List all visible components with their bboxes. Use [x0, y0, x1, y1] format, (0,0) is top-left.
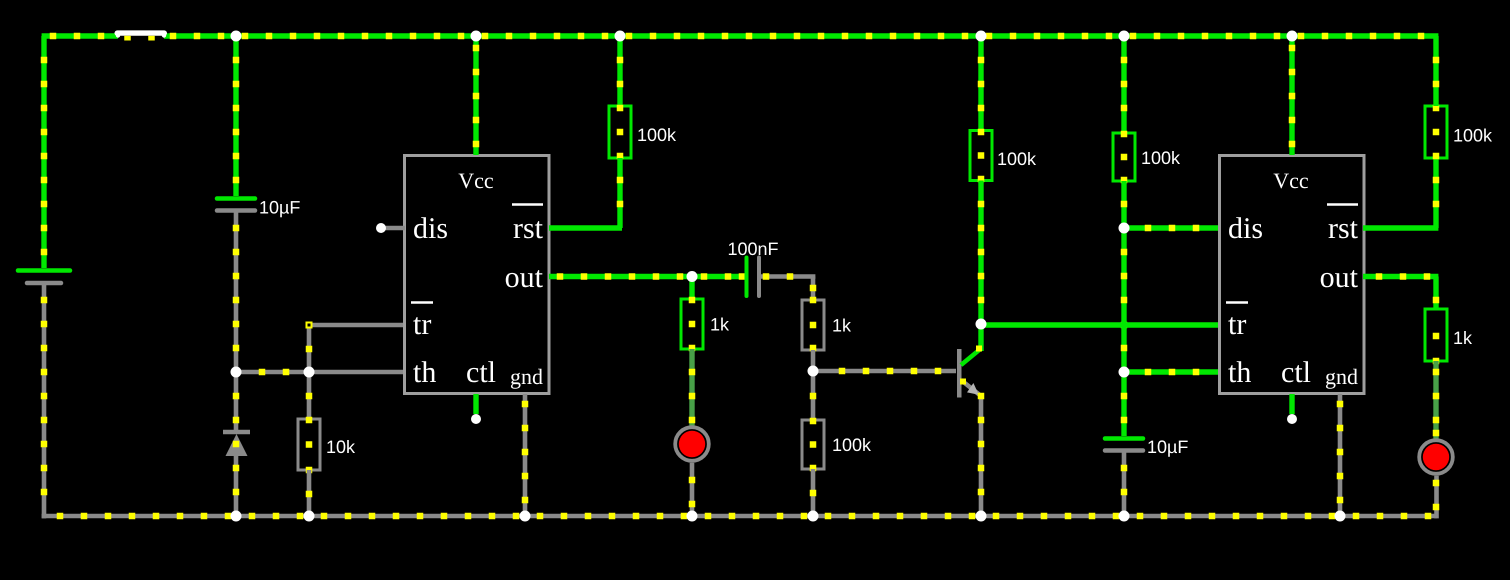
wire U2 gnd pin to ground rail [1337, 394, 1344, 516]
wire C1 bottom to th node [233, 212, 240, 372]
wire U2 ctl stub (unconnected) [1289, 394, 1294, 414]
svg-text:10µF: 10µF [259, 198, 300, 218]
resistor R2 10k [298, 417, 356, 474]
IC U2 555 timer body [1220, 156, 1365, 394]
node A (out / C2 / LED branch) [687, 271, 698, 282]
wire U1 Vcc pin [473, 36, 480, 155]
wire LED1 cathode to ground rail [689, 463, 696, 516]
svg-text:rst: rst [1328, 212, 1359, 245]
svg-text:1k: 1k [710, 315, 730, 335]
svg-text:100k: 100k [997, 149, 1037, 169]
svg-text:ctl: ctl [1281, 356, 1311, 389]
wire top power rail (+5V) [42, 33, 1439, 40]
wire battery positive lead [41, 36, 48, 268]
svg-text:rst: rst [513, 212, 544, 245]
svg-text:out: out [505, 261, 544, 294]
svg-text:100k: 100k [1453, 126, 1493, 146]
wire node B to transistor base [813, 368, 956, 375]
wire U2 rst to R8 [1363, 158, 1439, 228]
resistor R7 100k [1113, 131, 1181, 184]
svg-text:ctl: ctl [466, 356, 496, 389]
wire U2 Vcc pin [1289, 36, 1296, 155]
wire C3 bottom to ground rail [1121, 452, 1128, 516]
wire R9 to LED2 [1433, 361, 1440, 440]
node U2 gnd / ground rail [1335, 511, 1346, 522]
node U2 th / C3 junction [1119, 367, 1130, 378]
battery B1 (5V) [18, 271, 70, 284]
resistor R5 100k [802, 418, 872, 472]
pin label rst U2 (with overline) [1327, 205, 1359, 246]
capacitor C3 10uF [1105, 437, 1188, 457]
svg-text:th: th [1228, 356, 1251, 389]
pin label tr U1 (with overline) [411, 303, 433, 342]
wire tr line (collector to U2 tr pin) [981, 322, 1220, 329]
wire dis node down to th node [1121, 228, 1128, 372]
svg-text:out: out [1320, 261, 1359, 294]
node B (base / R5 junction) [808, 366, 819, 377]
wire LED2 cathode to ground rail [1433, 476, 1440, 519]
wire R5 bottom lead [810, 469, 817, 516]
wire U1 out pin to node A [549, 273, 746, 280]
wire Q1 emitter to ground rail [978, 393, 985, 516]
svg-text:gnd: gnd [1325, 364, 1358, 389]
wire tr branch [306, 322, 406, 373]
wire U1 gnd pin to ground rail [522, 394, 529, 516]
pin label tr U2 (with overline) [1226, 303, 1248, 342]
node U1 dis post (open) [376, 223, 386, 233]
wire th node to C3 [1121, 372, 1128, 436]
resistor R1 100k [609, 105, 677, 160]
node R7 / U2 dis junction [1119, 223, 1130, 234]
wire U1 dis stub (unconnected) [381, 226, 405, 231]
resistor R4 1k (base resistor) [802, 297, 852, 352]
svg-text:Vcc: Vcc [1273, 168, 1309, 193]
node top rail / C1 branch [231, 31, 242, 42]
svg-text:10k: 10k [326, 437, 356, 457]
node LED1 branch top [689, 277, 694, 300]
wire R7 bottom to dis node [1121, 181, 1128, 228]
wire R3 to LED1 [689, 349, 696, 427]
node R5 / ground rail [808, 511, 819, 522]
svg-text:gnd: gnd [510, 364, 543, 389]
node top rail / R1 branch [615, 31, 626, 42]
wire R5 top lead [810, 371, 817, 420]
resistor R8 100k [1425, 105, 1493, 160]
wire C2 right plate to 1k [759, 273, 816, 300]
svg-text:1k: 1k [1453, 328, 1473, 348]
wire th horizontal segment [236, 369, 309, 376]
LED LED1 (red) [675, 427, 709, 461]
wire R6 bottom to collector node [978, 181, 985, 325]
diode D1 [223, 432, 250, 456]
wire 10k top lead [306, 372, 313, 419]
wire U2 dis pin [1124, 225, 1220, 232]
node U1 gnd / ground rail [520, 511, 531, 522]
wire diode anode lead [233, 372, 240, 432]
LED LED2 (red) [1419, 440, 1453, 474]
svg-text:1k: 1k [832, 316, 852, 336]
capacitor C1 10uF [217, 198, 300, 218]
resistor R9 1k [1425, 309, 1473, 364]
svg-text:100k: 100k [832, 435, 872, 455]
wire R6 top lead [978, 36, 985, 131]
wire R1 bottom to U1 rst pin [549, 158, 623, 228]
svg-text:dis: dis [413, 212, 448, 245]
node Q1 emitter / ground rail [976, 511, 987, 522]
node tr/th/10k junction [304, 367, 315, 378]
wire th to chip [309, 370, 405, 375]
svg-text:100k: 100k [1141, 148, 1181, 168]
capacitor C2 100nF [727, 239, 778, 296]
wire 10k bottom lead [306, 470, 313, 516]
wire diode cathode to ground rail [233, 456, 240, 516]
wire U1 ctl stub (unconnected) [473, 394, 478, 414]
wire C1 top lead [233, 36, 240, 196]
node LED1 / ground rail [687, 511, 698, 522]
node top rail / R6 branch [976, 31, 987, 42]
node Q1 collector / R6 / tr wire [976, 319, 987, 330]
svg-text:dis: dis [1228, 212, 1263, 245]
node top rail / U2 Vcc branch [1287, 31, 1298, 42]
node diode branch / ground rail [231, 511, 242, 522]
svg-text:10µF: 10µF [1147, 437, 1188, 457]
resistor R6 100k [970, 129, 1037, 183]
node C1 / th / diode junction [231, 367, 242, 378]
node U2 ctl post (open) [1287, 414, 1297, 424]
wire U2 out pin to R9 [1363, 273, 1439, 309]
wire R8 top to rail corner [1433, 36, 1440, 106]
transistor Q1 NPN [957, 346, 982, 398]
wire R1 top lead [617, 36, 624, 106]
wire Q1 collector lead [978, 325, 983, 351]
node U1 ctl post (open) [471, 414, 481, 424]
node top rail / U1 Vcc branch [471, 31, 482, 42]
svg-text:100nF: 100nF [727, 239, 778, 259]
IC U1 555 timer body [405, 156, 550, 394]
wire U2 th pin [1124, 369, 1220, 376]
svg-text:th: th [413, 356, 436, 389]
node top rail / R7 branch [1119, 31, 1130, 42]
pin label rst U1 (with overline) [512, 205, 544, 246]
svg-text:tr: tr [413, 308, 431, 341]
switch S1 (closed) on top rail [115, 30, 168, 40]
node C3 / ground rail [1119, 511, 1130, 522]
svg-text:Vcc: Vcc [458, 168, 494, 193]
node 10k / ground rail [304, 511, 315, 522]
resistor R3 1k (LED resistor) [681, 297, 730, 352]
wire R4 bottom to node B [811, 350, 816, 371]
wire bottom ground rail [42, 513, 1437, 520]
svg-text:100k: 100k [637, 125, 677, 145]
wire battery negative lead [41, 285, 48, 518]
svg-text:tr: tr [1228, 308, 1246, 341]
wire R7 top lead [1121, 36, 1128, 133]
